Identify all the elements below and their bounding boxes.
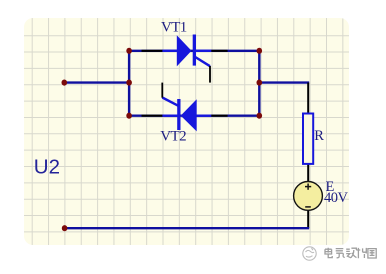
wire: right vertical bus [258, 51, 260, 116]
label VT1 [161, 19, 187, 35]
pin: E bottom lead [307, 210, 309, 228]
svg-text:U2: U2 [34, 156, 60, 179]
schematic sheet background [24, 18, 349, 245]
label E [326, 179, 335, 195]
thyristor VT1 [162, 35, 211, 67]
junction: right top [257, 48, 263, 54]
wire: left vertical bus [128, 51, 130, 116]
wire: top branch [129, 50, 259, 52]
label U2 [34, 156, 60, 179]
source E [294, 182, 323, 211]
watermark logo [303, 247, 316, 260]
svg-text:R: R [314, 128, 324, 144]
junction: left bottom [126, 113, 132, 119]
junction: left top [126, 48, 132, 54]
pin: VT2 gate stub [161, 83, 163, 98]
wire: bottom branch [129, 114, 259, 116]
junction: left mid node [126, 80, 132, 86]
svg-text:VT1: VT1 [161, 19, 187, 35]
wire: bottom rail [65, 227, 310, 229]
junction: right bottom [257, 113, 263, 119]
svg-text:VT2: VT2 [160, 129, 186, 145]
svg-text:40V: 40V [324, 190, 349, 206]
wire: left middle stub [64, 81, 129, 83]
wire: to resistor [259, 81, 309, 83]
label R [314, 128, 324, 144]
watermark text 电气设计圈 [325, 248, 376, 258]
junction: left middle [62, 80, 68, 86]
pin: VT2 anode lead [211, 115, 228, 117]
pin: VT1 anode lead [142, 50, 164, 52]
label VT2 [160, 129, 186, 145]
pin: VT2 cathode lead [142, 115, 164, 117]
thyristor VT2 [162, 98, 211, 132]
pin: VT1 gate stub [209, 66, 211, 83]
pin: VT1 cathode lead [211, 50, 228, 52]
junction: right mid node [257, 80, 263, 86]
junction: bottom rail left end [62, 225, 68, 231]
pin: R bottom lead [307, 164, 309, 182]
resistor R [303, 114, 313, 164]
pin: R top lead [307, 83, 309, 114]
label 40V [324, 190, 349, 206]
